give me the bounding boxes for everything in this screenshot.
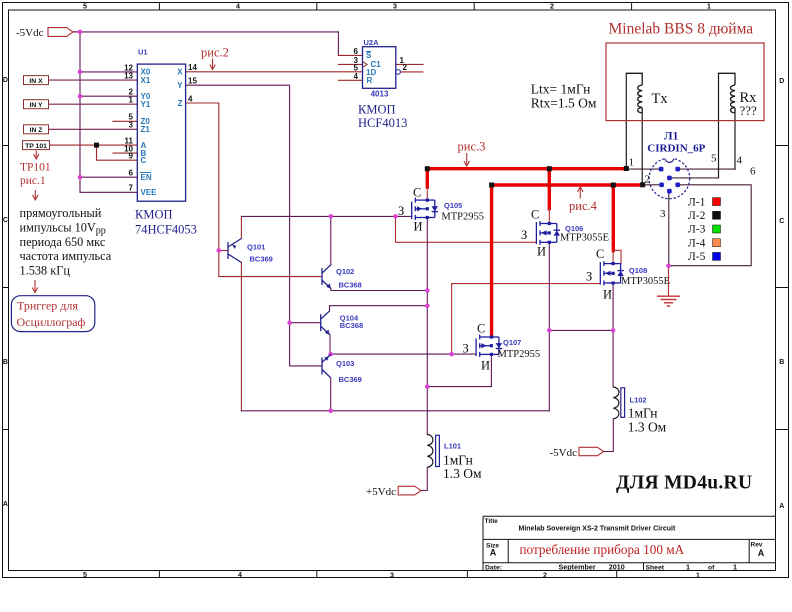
wire Q101 collector to bottom rail [240,263,242,411]
wire Tx coil left lead to pin1 node [625,73,627,168]
pin stub U2A out pin1 [396,63,423,65]
svg-text:C: C [779,218,784,225]
arrow down ris2 [210,59,216,70]
svg-text:С: С [531,208,539,222]
svg-text:4013: 4013 [371,90,389,99]
svg-text:MTP3055E: MTP3055E [560,233,609,244]
mosfet Q106 MTP3055E N-channel [536,221,560,245]
svg-text:З: З [398,204,404,218]
svg-text:рис.1: рис.1 [20,175,46,187]
svg-text:MTP3055E: MTP3055E [621,276,670,287]
DIN pin numbers [629,153,757,221]
svg-text:И: И [603,288,612,302]
svg-text:И: И [537,245,546,259]
svg-text:2: 2 [550,4,554,11]
svg-text:Л-4: Л-4 [688,237,706,249]
svg-text:4: 4 [354,72,359,81]
svg-text:A: A [779,503,784,510]
legend color squares [713,198,721,261]
svg-text:September: September [559,563,596,572]
wire bus to X0 pin12 [80,71,137,73]
wire bus to EN pin6 [80,176,137,178]
wire TP101 to pin A [50,144,138,146]
wire -5Vdc pigtail at top left [73,31,80,33]
svg-text:С: С [596,247,604,261]
svg-text:Q108: Q108 [629,266,647,275]
svg-text:IN X: IN X [29,78,43,85]
svg-text:6: 6 [750,166,756,178]
wire thin drain Q108 [613,250,621,263]
svg-text:A: A [490,548,497,558]
svg-text:С: С [477,322,485,336]
svg-text:1.3 Ом: 1.3 Ом [628,420,667,435]
wire bus to Y0 pin2 [80,95,137,97]
svg-text:???: ??? [740,103,758,118]
wire net Y: U1 Y to Q104 Q103 bases [186,85,322,366]
wire source bus branch to Q107 source [427,355,491,387]
svg-text:Осциллограф: Осциллограф [17,315,86,329]
svg-text:BC369: BC369 [339,375,362,384]
svg-text:1мГн: 1мГн [628,406,658,421]
svg-text:1: 1 [733,563,737,572]
svg-text:BC368: BC368 [339,281,362,290]
wire Q106 source down to rail [548,243,550,411]
wire DIN pin3 down [668,191,670,266]
svg-text:1: 1 [686,563,690,572]
svg-text:КМОП: КМОП [135,208,173,222]
svg-text:15: 15 [188,77,197,86]
svg-text:Q105: Q105 [444,201,462,210]
svg-text:ТР101: ТР101 [20,162,51,174]
svg-text:1: 1 [696,573,700,580]
svg-text:Y1: Y1 [141,100,151,109]
svg-text:прямоугольный: прямоугольный [20,206,102,220]
arrow down TP101 box [33,151,39,160]
svg-text:14: 14 [188,63,197,72]
TITLEBLOCK [483,516,776,571]
mosfet Q108 MTP3055E N-channel [600,261,624,285]
svg-text:периода 650 мкс: периода 650 мкс [20,235,106,249]
wire Rx coil right lead to pin4 [734,111,736,169]
wire Q103 emitter to bottom rail [330,378,332,411]
svg-text:7: 7 [129,184,134,193]
svg-text:Sheet: Sheet [646,565,665,572]
svg-text:потребление прибора 100 мА: потребление прибора 100 мА [520,542,685,557]
connector flag -5Vdc bottom [550,447,604,459]
wire ground stub [668,266,670,296]
svg-text:+5Vdc: +5Vdc [366,486,396,498]
svg-text:6: 6 [129,169,134,178]
svg-text:2: 2 [645,174,651,186]
pin stub U2A S pin6 [338,54,362,56]
svg-text:Date:: Date: [485,565,502,572]
port box IN Z [24,125,49,134]
arrow down ris3 [464,153,470,166]
wire gate link to Q106 [396,216,537,242]
thick red drop to Q106 drain [548,169,551,209]
svg-text:HCF4013: HCF4013 [358,116,407,130]
wire bottom rail [241,410,549,412]
wire source bus Q105 down to L101 [426,218,428,435]
svg-text:CIRDIN_6P: CIRDIN_6P [647,143,705,155]
svg-text:Minelab Sovereign XS-2 Transmi: Minelab Sovereign XS-2 Transmit Driver C… [519,526,676,533]
svg-text:3: 3 [390,573,394,580]
wire Q104 collector to source bus [330,306,428,311]
svg-text:3: 3 [660,208,666,220]
port box IN Y [24,100,49,109]
svg-text:A: A [3,501,8,508]
svg-text:Л-3: Л-3 [688,224,706,236]
svg-text:X1: X1 [141,76,151,85]
svg-text:Rtx=1.5 Ом: Rtx=1.5 Ом [531,96,597,111]
wire -5Vdc rail to U2A [73,32,338,56]
svg-text:З: З [521,228,527,242]
svg-text:TP 101: TP 101 [25,143,47,150]
svg-text:MTP2955: MTP2955 [498,349,541,360]
connector flag -5Vdc top left [16,27,73,39]
svg-text:Z: Z [178,99,183,108]
thick red bus2 [492,183,643,186]
thick red bus1 [427,167,626,170]
ground symbol [657,296,680,306]
svg-text:D: D [3,77,8,84]
svg-text:2010: 2010 [609,563,625,572]
svg-text:Q103: Q103 [336,359,354,368]
svg-text:1: 1 [129,96,134,105]
svg-text:2: 2 [403,63,408,72]
wire A to C link [97,145,138,160]
svg-text:-5Vdc: -5Vdc [550,447,578,459]
arrow down ris1 [33,190,39,200]
paragraph pulse description [20,206,112,278]
svg-text:IN Z: IN Z [30,127,43,134]
svg-text:рис.3: рис.3 [458,140,486,154]
svg-text:of: of [708,565,715,572]
svg-text:1: 1 [707,4,711,11]
svg-text:Tx: Tx [652,91,669,107]
wire L101 bottom to +5Vdc [421,468,427,491]
inductor L101 [427,434,439,467]
wire DIN pin6 loop to ground node [669,185,752,266]
wire IN Z to Z1 pin3 [49,128,138,130]
svg-text:A: A [758,548,765,558]
connector J1 CIRDIN_6P DIN circle [649,154,690,199]
thick red drop to Q105 drain [426,169,429,187]
svg-text:4: 4 [188,94,193,103]
svg-text:L101: L101 [444,442,461,451]
svg-text:U1: U1 [138,48,148,57]
svg-text:2: 2 [543,573,547,580]
legend labels L-1..L-5 [688,196,706,263]
wire L102 bottom to -5Vdc [604,419,614,452]
svg-text:BC368: BC368 [340,321,363,330]
svg-text:Z1: Z1 [141,125,151,134]
svg-text:И: И [414,220,423,234]
coil Rx [719,73,736,113]
svg-text:Л1: Л1 [664,131,679,143]
svg-text:З: З [463,342,469,356]
svg-text:3: 3 [393,4,397,11]
transistor Q103 BC369 PNP [322,354,331,377]
thick red drop to Q108 drain [612,185,615,251]
pin stub U2A C1 pin3 [338,63,362,65]
wire thin drain Q106 [548,209,550,224]
svg-text:Minelab BBS 8 дюйма: Minelab BBS 8 дюйма [609,21,754,38]
svg-text:B: B [3,359,8,366]
svg-text:Title: Title [485,518,499,525]
svg-text:IN Y: IN Y [29,102,43,109]
thick red drop to Q107 drain [490,185,493,337]
wire Q102 emitter to source bus [331,288,428,290]
wire Q101 emitter to gate line [240,216,242,238]
svg-text:Л-5: Л-5 [688,251,706,263]
wire gate2 line to Q107 [330,353,476,355]
trigger callout rounded box [11,296,94,332]
svg-text:EN: EN [141,173,152,182]
svg-text:L102: L102 [630,396,647,405]
wire DIN pin1 [626,168,661,170]
wire IN X to X1 pin13 [49,79,138,81]
svg-text:1: 1 [629,157,635,169]
wire Q104 emitter to gate2 node [329,335,331,355]
inductor L102 [613,387,624,419]
svg-text:4: 4 [737,155,743,167]
svg-text:З: З [586,270,592,284]
wire link Q106 source to Q108 source [549,329,613,331]
transistor Q101 BC369 PNP [228,239,241,263]
coil Tx [626,73,642,113]
IC U1 74HCF4053 [124,48,197,202]
svg-text:74HCF4053: 74HCF4053 [135,223,197,237]
svg-text:С: С [413,186,421,200]
transistor Q104 BC368 NPN [321,311,330,335]
svg-text:X: X [177,68,183,77]
svg-text:3: 3 [129,121,134,130]
svg-text:R: R [367,76,373,85]
search coil red box [606,43,764,121]
mosfet Q107 MTP2955 P-channel [476,335,502,357]
svg-text:И: И [481,359,490,373]
svg-text:C: C [3,217,8,224]
connector flag +5Vdc [366,486,421,498]
svg-text:13: 13 [124,72,133,81]
transistor Q102 BC368 NPN [322,265,331,289]
svg-text:Л-1: Л-1 [688,196,706,208]
svg-text:Триггер для: Триггер для [17,299,78,313]
arrow up ris4 [578,187,584,199]
pin stub B [113,152,137,154]
svg-text:5: 5 [711,153,717,165]
wire net Z: U1 Z to Q101 Q102 bases [186,103,322,277]
svg-text:Л-2: Л-2 [688,210,706,222]
svg-text:U2A: U2A [364,38,380,47]
svg-text:частота импульса: частота импульса [20,249,112,263]
pin stub U2A R pin4 [338,79,362,81]
svg-text:S: S [366,51,372,60]
wire Rx coil left lead to pin5 [718,73,720,178]
wire DIN pin5 to Rx left [669,177,718,179]
wire Q102 collector drop [330,216,332,264]
svg-text:MTP2955: MTP2955 [441,212,484,223]
wire U1 X output to U2A 1D [186,71,363,73]
svg-text:VEE: VEE [141,188,158,197]
svg-text:КМОП: КМОП [358,103,396,117]
svg-text:1.3 Ом: 1.3 Ом [443,466,482,481]
IC U2A HCF4013 flip-flop [354,38,408,99]
port box IN X [24,76,49,85]
arrow down to trigger box [32,280,38,293]
wire Tx coil right lead to pin2 node [641,111,643,185]
svg-text:6: 6 [354,47,359,56]
svg-text:ДЛЯ MD4u.RU: ДЛЯ MD4u.RU [616,473,752,494]
svg-text:D: D [779,78,784,85]
pin stub Z0 [113,120,137,122]
svg-text:-5Vdc: -5Vdc [16,27,44,39]
wire gate line to Q105 [241,215,411,217]
svg-text:рис.4: рис.4 [569,199,598,213]
solder squares [94,143,645,188]
wire thin drain Q105 [426,186,428,200]
svg-text:Q101: Q101 [247,243,265,252]
svg-text:9: 9 [129,152,134,161]
svg-text:рис.2: рис.2 [201,46,229,60]
wire Q103 collector from gate2 node [330,353,332,355]
svg-text:C: C [141,156,147,165]
wire gate2 link to Q108 [452,284,601,355]
svg-text:Y: Y [177,81,183,90]
svg-text:5: 5 [83,4,87,11]
svg-text:Q107: Q107 [503,338,521,347]
pin stub U2A out pin2 [400,71,423,73]
wire -5V bus down U1 left [80,32,137,192]
svg-text:5: 5 [83,572,87,579]
wire Q108 source down to L102 [612,283,614,387]
svg-text:4: 4 [236,4,240,11]
wire DIN pin2 [642,184,661,186]
svg-text:Q102: Q102 [336,267,354,276]
port box TP 101 [23,141,50,150]
wire DIN pin4 to Rx right [678,168,735,170]
wire IN Y to Y1 pin1 [49,103,138,105]
svg-text:1.538 кГц: 1.538 кГц [20,264,71,278]
svg-text:4: 4 [238,572,242,579]
svg-text:BC369: BC369 [250,255,273,264]
mosfet Q105 MTP2955 P-channel [412,198,438,220]
svg-text:Ltx= 1мГн: Ltx= 1мГн [531,82,591,97]
svg-text:B: B [779,359,784,366]
